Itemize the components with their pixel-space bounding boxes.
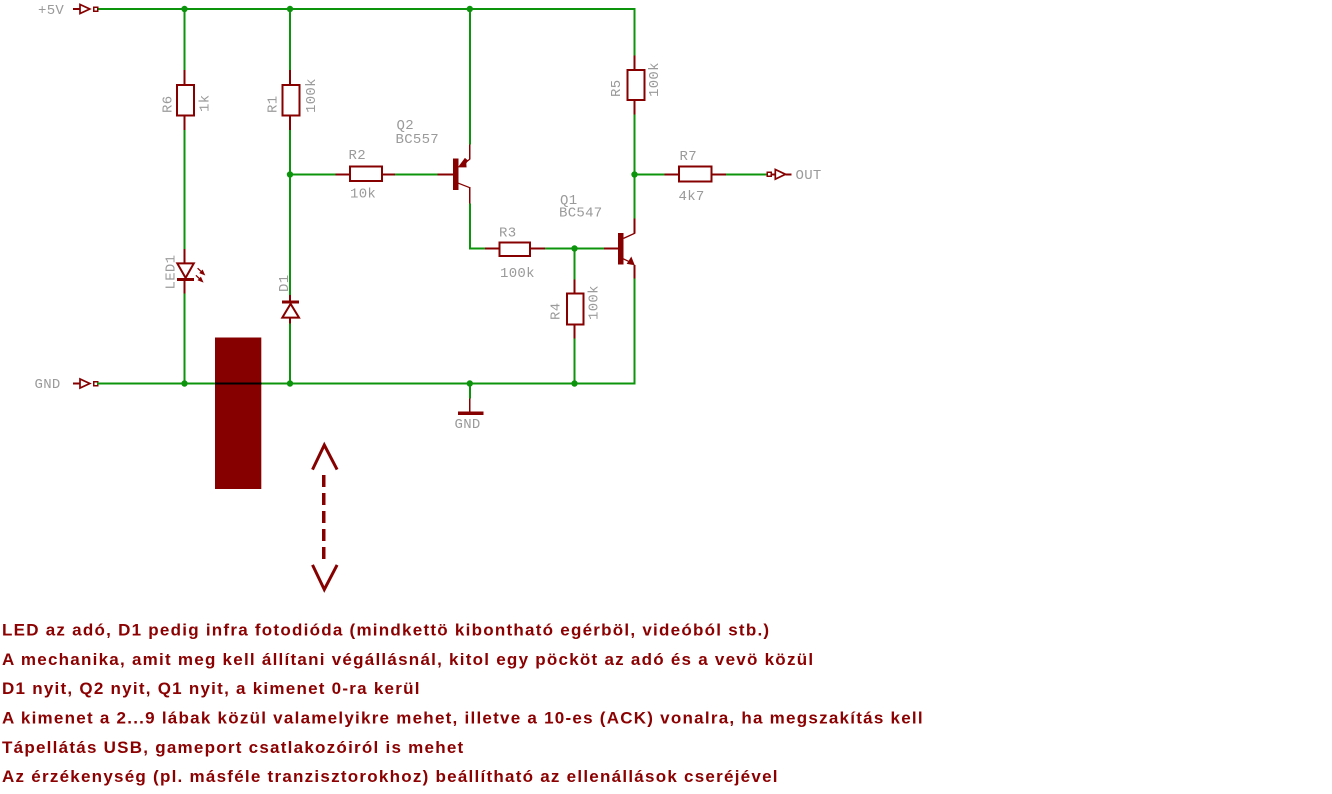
svg-text:100k: 100k (647, 62, 663, 97)
node junction R5/R7/Q1 collector (631, 171, 637, 177)
wire R2 to Q2 base (395, 174, 438, 176)
svg-text:R7: R7 (680, 149, 697, 165)
svg-text:A kimenet a 2...9 lábak közül: A kimenet a 2...9 lábak közül valamelyik… (2, 709, 924, 728)
wire Q2 emitter to +5V (469, 8, 471, 145)
svg-text:10k: 10k (350, 187, 376, 203)
svg-text:Az érzékenység (pl. másféle tr: Az érzékenység (pl. másféle tranzisztoro… (2, 767, 779, 786)
svg-text:R3: R3 (499, 225, 516, 241)
resistor R3 (485, 225, 545, 282)
svg-text:R1: R1 (266, 96, 282, 113)
mechanical blocker rectangle (215, 338, 261, 490)
wire Q1 emitter to GND (634, 279, 636, 385)
node junction +5V/R6 (181, 6, 187, 12)
svg-text:BC557: BC557 (396, 132, 440, 148)
svg-text:+5V: +5V (38, 3, 64, 19)
svg-text:100k: 100k (500, 266, 535, 282)
wire Q1 collector (634, 175, 636, 219)
svg-text:R5: R5 (609, 80, 625, 97)
transistor Q1 (559, 193, 635, 278)
svg-text:GND: GND (35, 377, 61, 393)
diode D1 (277, 275, 299, 324)
svg-text:A mechanika, amit meg kell áll: A mechanika, amit meg kell állítani végá… (2, 650, 814, 669)
svg-text:100k: 100k (304, 78, 320, 113)
svg-text:R2: R2 (349, 148, 366, 164)
wire R7 net left (635, 174, 665, 176)
svg-text:100k: 100k (587, 285, 603, 320)
ground symbol GND (455, 384, 484, 434)
node junction R1/R2/D1 (287, 171, 293, 177)
node junction GND/R4 (571, 380, 577, 386)
wire R5 branch (634, 55, 636, 175)
LED LED1 (164, 249, 206, 294)
wire R7 to OUT (726, 174, 769, 176)
net +5V top rail wire (97, 8, 635, 56)
resistor R5 (609, 56, 663, 115)
wire Q2 collector to R3 (469, 204, 485, 249)
supply pin +5V (38, 3, 98, 19)
node junction R3/R4/Q1 (571, 245, 577, 251)
svg-text:LED az adó, D1 pedig infra fot: LED az adó, D1 pedig infra fotodióda (mi… (2, 621, 770, 640)
transistor Q2 (396, 118, 470, 203)
ground pin GND left (35, 377, 98, 393)
pin OUT (767, 168, 821, 184)
net GND bottom rail wire (97, 383, 635, 385)
svg-text:BC547: BC547 (559, 206, 603, 222)
svg-text:R6: R6 (161, 96, 177, 113)
node junction GND/R6 (181, 380, 187, 386)
node junction GND/D1 (287, 380, 293, 386)
resistor R4 (549, 280, 603, 339)
svg-text:D1 nyit, Q2 nyit, Q1 nyit, a k: D1 nyit, Q2 nyit, Q1 nyit, a kimenet 0-r… (2, 679, 421, 698)
wire R6 branch (184, 8, 186, 384)
resistor R2 (336, 148, 395, 203)
svg-text:1k: 1k (198, 95, 214, 112)
resistor R7 (665, 149, 727, 205)
node junction GND/symbol (467, 380, 473, 386)
node junction +5V/Q2 emitter (467, 6, 473, 12)
motion double arrow (313, 445, 338, 590)
svg-text:LED1: LED1 (164, 255, 180, 290)
svg-text:GND: GND (455, 417, 481, 433)
svg-text:Tápellátás USB, gameport csatl: Tápellátás USB, gameport csatlakozóiról … (2, 738, 464, 757)
resistor R1 (266, 70, 321, 130)
svg-text:R4: R4 (549, 303, 565, 320)
svg-text:4k7: 4k7 (679, 189, 705, 205)
resistor R6 (161, 70, 214, 130)
wire R2 net left (290, 174, 336, 176)
node junction +5V/R1 (287, 6, 293, 12)
wire R3 to Q1 base (545, 248, 604, 250)
svg-text:OUT: OUT (796, 168, 822, 184)
wire R1/D1 branch (289, 8, 291, 384)
wire R4 branch (574, 249, 576, 385)
svg-text:D1: D1 (277, 275, 293, 292)
